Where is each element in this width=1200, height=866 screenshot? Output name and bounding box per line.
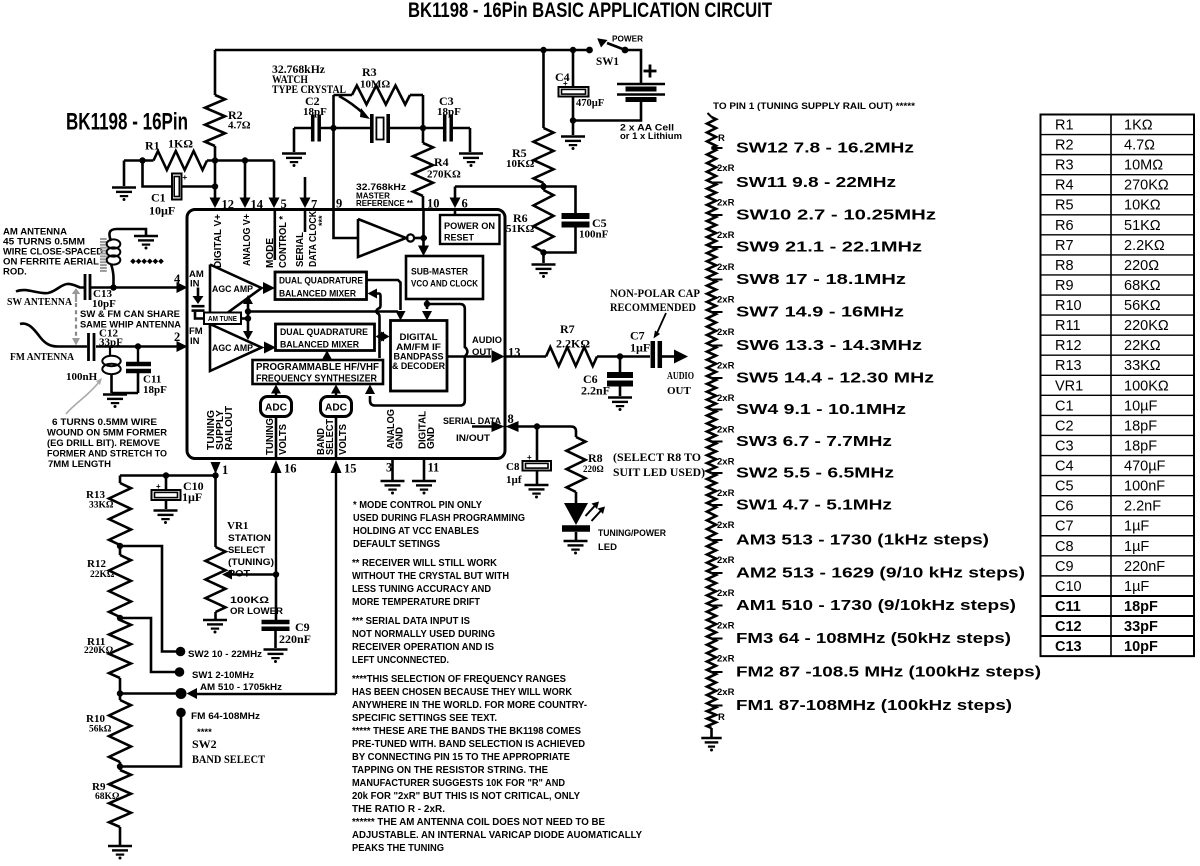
tap AM3 (712, 539, 723, 541)
svg-text:AM2 513 - 1629 (9/10 kHz steps: AM2 513 - 1629 (9/10 kHz steps) (736, 565, 1025, 582)
wire C1 to pin12 line (182, 185, 216, 188)
wire audio out internal (447, 355, 491, 358)
svg-text:R12: R12 (1055, 338, 1082, 354)
node AM coil tap (110, 284, 116, 290)
svg-text:OUT: OUT (472, 347, 492, 358)
ground below C3 (459, 152, 483, 155)
svg-text:C5: C5 (1055, 479, 1074, 495)
svg-text:2xR: 2xR (717, 425, 735, 436)
wire C5 bottom branch (544, 228, 576, 253)
svg-text:1KΩ: 1KΩ (1124, 118, 1153, 134)
svg-text:2xR: 2xR (717, 588, 735, 599)
node crystal left (330, 125, 336, 131)
svg-text:10pF: 10pF (1124, 639, 1158, 655)
svg-text:FM ANTENNA: FM ANTENNA (10, 351, 74, 363)
svg-text:SW2 10 - 22MHz: SW2 10 - 22MHz (188, 649, 262, 660)
block ADC right (321, 397, 352, 417)
gray arrow up (75, 294, 77, 302)
svg-text:470µF: 470µF (576, 98, 604, 109)
ground string bottom (701, 737, 721, 740)
wire wiper to pin16 line (231, 573, 276, 576)
tap SW8 (712, 279, 723, 281)
node FM C11 tap (135, 343, 141, 349)
svg-text:POWER: POWER (612, 34, 643, 44)
svg-text:SERIAL: SERIAL (295, 232, 306, 267)
svg-text:BAND SELECT: BAND SELECT (192, 752, 265, 766)
tap SW3 (712, 441, 723, 443)
tap SW12 (712, 147, 723, 149)
resistor string 2xR segment (707, 280, 716, 313)
svg-text:DIGITAL: DIGITAL (400, 332, 439, 342)
capacitor C10 electrolytic (152, 490, 181, 500)
capacitor C7 (651, 341, 656, 368)
svg-text:BALANCED MIXER: BALANCED MIXER (280, 340, 359, 351)
svg-text:ANALOG V+: ANALOG V+ (242, 214, 253, 266)
LED emission arrows (586, 505, 597, 517)
wire R9 to ground (119, 827, 122, 845)
svg-text:2xR: 2xR (717, 488, 735, 499)
svg-text:2xR: 2xR (717, 327, 735, 338)
svg-text:****THIS SELECTION OF FREQUENC: ****THIS SELECTION OF FREQUENCY RANGES (352, 674, 566, 685)
wire C3 right (453, 127, 470, 130)
capacitor C13 (84, 274, 87, 300)
ground below R6 (532, 263, 556, 266)
svg-text:SW11 9.8 - 22MHz: SW11 9.8 - 22MHz (736, 174, 896, 191)
feedback loop wire (370, 304, 467, 406)
wire top supply rail (215, 49, 588, 52)
resistor string 2xR segment (707, 215, 716, 247)
op-amp AGC AMP lower (210, 324, 262, 371)
wire C7 to audio arrow (662, 355, 674, 358)
svg-text:+: + (183, 173, 188, 182)
svg-text:C2: C2 (1055, 418, 1074, 434)
svg-text:ADJUSTABLE. AN INTERNAL VARICA: ADJUSTABLE. AN INTERNAL VARICAP DIODE AU… (352, 830, 642, 841)
resistor string 2xR segment (707, 473, 716, 505)
svg-text:220nF: 220nF (279, 632, 311, 646)
wire rail to R2 (214, 50, 217, 95)
wire ADC left to pin16 (275, 417, 278, 460)
pin 1 arrow (211, 462, 221, 474)
node am tune bus a (245, 308, 251, 314)
svg-text:OUT: OUT (667, 385, 692, 397)
wire pin 14 (244, 161, 247, 199)
block DUAL QUADRATURE BALANCED MIXER lower (276, 324, 375, 351)
tap dot SW2 10-22MHz (176, 647, 186, 657)
svg-text:33KΩ: 33KΩ (1124, 358, 1161, 374)
ground below C9 (264, 648, 288, 651)
svg-text:C4: C4 (1055, 459, 1074, 475)
svg-text:15: 15 (344, 462, 357, 476)
svg-text:18pF: 18pF (143, 384, 167, 396)
svg-text:4.7Ω: 4.7Ω (1124, 138, 1155, 154)
wire C10 to ground (165, 500, 168, 509)
svg-text:VOLTS: VOLTS (338, 424, 349, 455)
wire ADC right to pin15 (335, 417, 338, 460)
wire pin1 to VR1 (214, 476, 217, 548)
wire pin8 to R8 (571, 427, 576, 438)
svg-text:SW7 14.9 - 16MHz: SW7 14.9 - 16MHz (736, 304, 904, 321)
IC U1 BK1198 outline (187, 210, 505, 459)
svg-text:BANDPASS: BANDPASS (394, 352, 444, 362)
node bus pin12 (212, 157, 218, 163)
svg-text:R8: R8 (588, 451, 603, 465)
resistor R3 (352, 86, 410, 105)
arrow vco into digital (422, 311, 432, 321)
svg-text:FM2 87 -108.5 MHz (100kHz step: FM2 87 -108.5 MHz (100kHz steps) (736, 664, 1041, 681)
svg-text:GND: GND (395, 427, 406, 449)
resistor R1 (154, 151, 208, 170)
wire join to ground (112, 392, 139, 395)
resistor string 2xR segment (707, 505, 716, 540)
wire tap FM band (120, 717, 181, 767)
svg-text:C1: C1 (1055, 398, 1074, 414)
wire inverter output (414, 237, 427, 240)
resistor string 2xR segment (707, 639, 716, 673)
svg-text:FREQUENCY SYNTHESIZER: FREQUENCY SYNTHESIZER (256, 374, 378, 385)
pin 16 arrow (271, 460, 282, 473)
tap FM3 (712, 638, 723, 640)
wire node to C1 (143, 161, 173, 187)
wire FM in (96, 345, 177, 348)
svg-text:DUAL QUADRATURE: DUAL QUADRATURE (279, 276, 363, 287)
tap SW4 (712, 409, 723, 411)
wire pin 12 (214, 161, 217, 199)
svg-text:GND: GND (426, 427, 437, 449)
tap FM1 (712, 705, 723, 707)
svg-text:R2: R2 (1055, 138, 1074, 154)
resistor R12 (119, 546, 122, 555)
ground below C10 (154, 509, 178, 512)
svg-text:(EG DRILL BIT). REMOVE: (EG DRILL BIT). REMOVE (47, 438, 160, 449)
svg-text:VR1: VR1 (227, 520, 248, 532)
svg-text:R13: R13 (1055, 358, 1082, 374)
svg-text:R1: R1 (1055, 118, 1074, 134)
block SUB-MASTER VCO AND CLOCK (406, 256, 483, 299)
tap dot FM 64-108MHz (176, 708, 186, 718)
wire R11 to AM node (119, 678, 122, 700)
pin 3 wire (391, 460, 394, 480)
svg-text:SW8 17 - 18.1MHz: SW8 17 - 18.1MHz (736, 271, 906, 288)
svg-text:270KΩ: 270KΩ (1124, 178, 1169, 194)
varicap diode wire (197, 288, 200, 297)
pin 4 arrow (177, 282, 188, 293)
node R1 left (139, 157, 145, 163)
svg-text:SELECT: SELECT (325, 419, 336, 455)
svg-text:2xR: 2xR (717, 262, 735, 273)
svg-text:R10: R10 (1055, 298, 1082, 314)
wire V+ bus right segment (207, 159, 274, 162)
svg-text:2xR: 2xR (717, 230, 735, 241)
node R12-R11 (117, 615, 123, 621)
inductor L1 AM coil (107, 239, 121, 248)
svg-text:SW & FM CAN SHARE: SW & FM CAN SHARE (80, 309, 180, 320)
node pin 1 (212, 472, 218, 478)
wire coil bottom to AM line (111, 264, 114, 288)
pin 8 double arrow (492, 421, 505, 432)
capacitor C11 (137, 347, 139, 363)
svg-text:1KΩ: 1KΩ (168, 137, 193, 151)
resistor R8 (567, 437, 586, 492)
svg-text:33pF: 33pF (1124, 619, 1158, 635)
svg-text:RAILOUT: RAILOUT (224, 406, 235, 450)
svg-text:470µF: 470µF (1124, 459, 1166, 475)
svg-text:& DECODER: & DECODER (392, 361, 445, 371)
block POWER ON RESET (440, 215, 500, 244)
svg-text:RECOMMENDED: RECOMMENDED (610, 302, 696, 314)
svg-text:SW5 14.4 - 12.30 MHz: SW5 14.4 - 12.30 MHz (736, 370, 934, 387)
svg-text:or 1 x Lithium: or 1 x Lithium (620, 131, 682, 141)
svg-text:MODE: MODE (265, 238, 276, 268)
svg-text:C9: C9 (1055, 559, 1074, 575)
svg-text:SELECT: SELECT (228, 545, 265, 556)
resistor R4 (413, 143, 433, 196)
block ADC left (261, 397, 292, 417)
ground below C8 (525, 484, 549, 487)
gray dashed link (75, 303, 77, 336)
svg-text:***** THESE ARE THE BANDS THE: ***** THESE ARE THE BANDS THE BK1198 COM… (352, 726, 581, 737)
pin 11 wire (423, 460, 426, 480)
arrow down to AGC lower (243, 331, 253, 340)
svg-text:33KΩ: 33KΩ (89, 501, 114, 511)
svg-text:STATION: STATION (228, 533, 271, 544)
svg-text:68KΩ: 68KΩ (95, 792, 120, 802)
svg-text:ADC: ADC (325, 402, 347, 414)
battery plate short thick (626, 87, 657, 92)
svg-text:C8: C8 (506, 461, 520, 473)
svg-text:WITHOUT THE CRYSTAL BUT WITH: WITHOUT THE CRYSTAL BUT WITH (352, 571, 509, 582)
inverter U1a (358, 219, 406, 257)
ground pin 3 (381, 480, 405, 483)
svg-text:4.7Ω: 4.7Ω (228, 120, 251, 132)
double arrow lower mixer - digital (378, 335, 386, 337)
pointer arrow to crystal (339, 96, 364, 114)
arrow synth to lower mixer (326, 352, 328, 360)
svg-text:DEFAULT SETINGS: DEFAULT SETINGS (353, 539, 440, 550)
wire pin10 internal (422, 209, 425, 238)
svg-text:ADC: ADC (265, 402, 287, 414)
svg-text:(SELECT R8 TO: (SELECT R8 TO (613, 452, 701, 464)
node C4-battery return (570, 117, 576, 123)
pin 6 arrow (450, 198, 461, 209)
svg-text:6 TURNS 0.5MM WIRE: 6 TURNS 0.5MM WIRE (52, 417, 157, 428)
capacitor C1 electrolytic (172, 174, 182, 200)
capacitor C8 electrolytic (523, 461, 552, 471)
svg-text:R11: R11 (1055, 318, 1081, 334)
battery plate long top (617, 83, 665, 86)
svg-text:1µF: 1µF (1124, 579, 1149, 595)
svg-text:C7: C7 (1055, 519, 1074, 535)
svg-text:VOLTS: VOLTS (278, 424, 289, 455)
wire upper mixer to digital (367, 280, 401, 310)
wire pin6 horizontal (455, 185, 544, 188)
resistor string 2xR segment (707, 672, 716, 706)
ground AM coil (134, 235, 158, 238)
svg-text:18pF: 18pF (1124, 438, 1157, 454)
wire coil top to ground (109, 229, 146, 241)
wire crystal node to R4 (422, 128, 425, 143)
inductor L2 100nH (109, 347, 111, 357)
wire crystal right (389, 127, 443, 130)
svg-text:C13: C13 (1055, 639, 1082, 655)
resistor R7 (546, 347, 597, 366)
wire C5 top branch (544, 187, 576, 214)
node R13-R12 (117, 543, 123, 549)
svg-text:SAME WHIP ANTENNA: SAME WHIP ANTENNA (80, 320, 181, 331)
resistor string top R segment (708, 113, 712, 117)
tap SW1 (712, 504, 723, 506)
ground below C6 (608, 396, 632, 399)
wire C2 left (294, 127, 311, 130)
arrow into VCO (422, 238, 425, 246)
svg-text:LESS TUNING ACCURACY AND: LESS TUNING ACCURACY AND (352, 584, 491, 595)
svg-text:VR1: VR1 (1055, 378, 1083, 394)
svg-text:SW10 2.7 - 10.25MHz: SW10 2.7 - 10.25MHz (736, 207, 936, 224)
resistor string 2xR segment (707, 573, 716, 606)
capacitor C9 (262, 620, 290, 625)
wire R8 to LED (575, 492, 578, 503)
tap FM2 (712, 671, 723, 673)
wire pin15 to AM node (197, 693, 336, 696)
svg-text:SW2 5.5 - 6.5MHz: SW2 5.5 - 6.5MHz (736, 465, 894, 482)
pin 7 internal stub (304, 210, 307, 232)
arrow ADC right to synth (335, 391, 337, 397)
svg-text:1µF: 1µF (1124, 539, 1149, 555)
svg-text:CONTROL *: CONTROL * (278, 216, 289, 268)
node crystal right (420, 125, 426, 131)
pointer to C7 (657, 313, 666, 333)
node AM tap (117, 690, 123, 696)
svg-text:18pF: 18pF (437, 106, 461, 118)
svg-text:SW3 6.7 - 7.7MHz: SW3 6.7 - 7.7MHz (736, 433, 892, 450)
capacitor C12 (87, 333, 90, 361)
capacitor C2 (311, 115, 315, 142)
svg-text:2.2nF: 2.2nF (1124, 499, 1161, 515)
gray arrow down (72, 338, 80, 346)
resistor string 2xR segment (707, 442, 716, 474)
svg-text:+: + (527, 453, 532, 462)
node rail end at switch (586, 47, 593, 54)
svg-text:HOLDING AT VCC ENABLES: HOLDING AT VCC ENABLES (353, 526, 479, 537)
wire bus to left ground (123, 161, 126, 187)
node R10-R9 (117, 763, 123, 769)
svg-text:220nF: 220nF (1124, 559, 1165, 575)
svg-text:SW9 21.1 - 22.1MHz: SW9 21.1 - 22.1MHz (736, 239, 922, 256)
wire C6 stub (619, 357, 622, 373)
wire string to ground (710, 728, 713, 737)
svg-text:NON-POLAR CAP: NON-POLAR CAP (610, 288, 700, 300)
svg-text:REFERENCE **: REFERENCE ** (356, 198, 414, 208)
wire L2 bottom (110, 374, 113, 393)
resistor string 2xR segment (707, 312, 716, 346)
svg-text:100nF: 100nF (1124, 479, 1165, 495)
node C10 tap (163, 472, 169, 478)
svg-text:SW ANTENNA: SW ANTENNA (7, 296, 72, 308)
wire bus to digital box (248, 310, 398, 313)
svg-text:HAS BEEN CHOSEN BECAUSE THEY W: HAS BEEN CHOSEN BECAUSE THEY WILL WORK (352, 687, 573, 698)
svg-text:POT: POT (228, 569, 250, 580)
svg-text:R10: R10 (86, 713, 105, 725)
wire varicap to AM TUNE (195, 312, 204, 319)
wire C6 to ground (619, 387, 622, 397)
svg-text:NOT NORMALLY USED DURING: NOT NORMALLY USED DURING (352, 629, 495, 640)
svg-text:AUDIO: AUDIO (472, 335, 502, 346)
svg-text:IN/OUT: IN/OUT (456, 433, 490, 444)
svg-text:1µf: 1µf (506, 474, 522, 486)
node vco out (424, 301, 430, 307)
svg-text:11: 11 (428, 461, 440, 475)
svg-text:SUIT LED USED): SUIT LED USED) (613, 467, 705, 479)
svg-text:R8: R8 (1055, 258, 1074, 274)
svg-text:2xR: 2xR (717, 654, 735, 665)
svg-text:3: 3 (386, 461, 392, 475)
svg-text:AM3 513 - 1730 (1kHz steps): AM3 513 - 1730 (1kHz steps) (736, 532, 989, 549)
tap SW9 (712, 246, 723, 248)
wire switch to battery (625, 50, 641, 83)
svg-text:* MODE CONTROL PIN ONLY: * MODE CONTROL PIN ONLY (353, 500, 482, 511)
svg-text:18pF: 18pF (1124, 418, 1157, 434)
block DUAL QUADRATURE BALANCED MIXER upper (275, 272, 367, 300)
svg-text:TUNING: TUNING (265, 418, 276, 455)
svg-text:LED: LED (598, 542, 617, 553)
op-amp AGC AMP upper (210, 265, 262, 326)
resistor R5 (534, 128, 554, 183)
wire R3 right (410, 94, 423, 97)
svg-text:FM1 87-108MHz (100kHz steps): FM1 87-108MHz (100kHz steps) (736, 697, 1012, 714)
svg-text:16: 16 (284, 462, 297, 476)
svg-text:ROD.: ROD. (3, 267, 27, 278)
wire pin 5 (273, 161, 276, 199)
svg-text:220KΩ: 220KΩ (1124, 318, 1169, 334)
crystal X1 (370, 114, 374, 143)
switch SW1 arm (607, 43, 624, 50)
wire pin8 external (518, 425, 571, 428)
wire tap SW1 band (120, 618, 175, 672)
node rail-R5 (540, 47, 546, 53)
resistor string 2xR segment (707, 378, 716, 410)
wire AM TUNE to bus (241, 317, 248, 320)
svg-text:LEFT UNCONNECTED.: LEFT UNCONNECTED. (352, 655, 449, 666)
resistor R6 (534, 190, 554, 252)
switch SW1 pivot node (622, 47, 629, 54)
node C6 tap (617, 353, 623, 359)
pin 15 arrow (331, 460, 342, 473)
svg-text:SW4 9.1 - 10.1MHz: SW4 9.1 - 10.1MHz (736, 401, 906, 418)
svg-text:10MΩ: 10MΩ (1124, 158, 1163, 174)
svg-text:VCO AND CLOCK: VCO AND CLOCK (411, 279, 478, 289)
svg-text:THE RATIO R - 2xR.: THE RATIO R - 2xR. (352, 804, 445, 815)
svg-text:2xR: 2xR (717, 361, 735, 372)
LED D1 (564, 503, 588, 525)
svg-text:AUDIO: AUDIO (667, 370, 694, 382)
svg-text:R: R (718, 133, 725, 144)
pin 12 arrow (210, 198, 221, 209)
tap SW7 (712, 311, 723, 313)
svg-text:(TUNING): (TUNING) (228, 557, 274, 568)
svg-text:56KΩ: 56KΩ (1124, 298, 1161, 314)
svg-text:SW1: SW1 (596, 56, 619, 68)
ground left of R1 (112, 186, 136, 189)
svg-text:SW6 13.3 - 14.3MHz: SW6 13.3 - 14.3MHz (736, 337, 922, 354)
svg-text:7MM LENGTH: 7MM LENGTH (48, 459, 111, 470)
resistor R11 (109, 620, 131, 678)
svg-text:100KΩ: 100KΩ (1124, 378, 1169, 394)
svg-text:R4: R4 (1055, 178, 1074, 194)
wire R7 to C7 (597, 355, 650, 358)
svg-text:100KΩ: 100KΩ (230, 595, 269, 606)
arrow loop into synth (365, 385, 375, 395)
svg-text:AGC AMP: AGC AMP (212, 343, 254, 354)
svg-text:IN: IN (190, 336, 200, 347)
